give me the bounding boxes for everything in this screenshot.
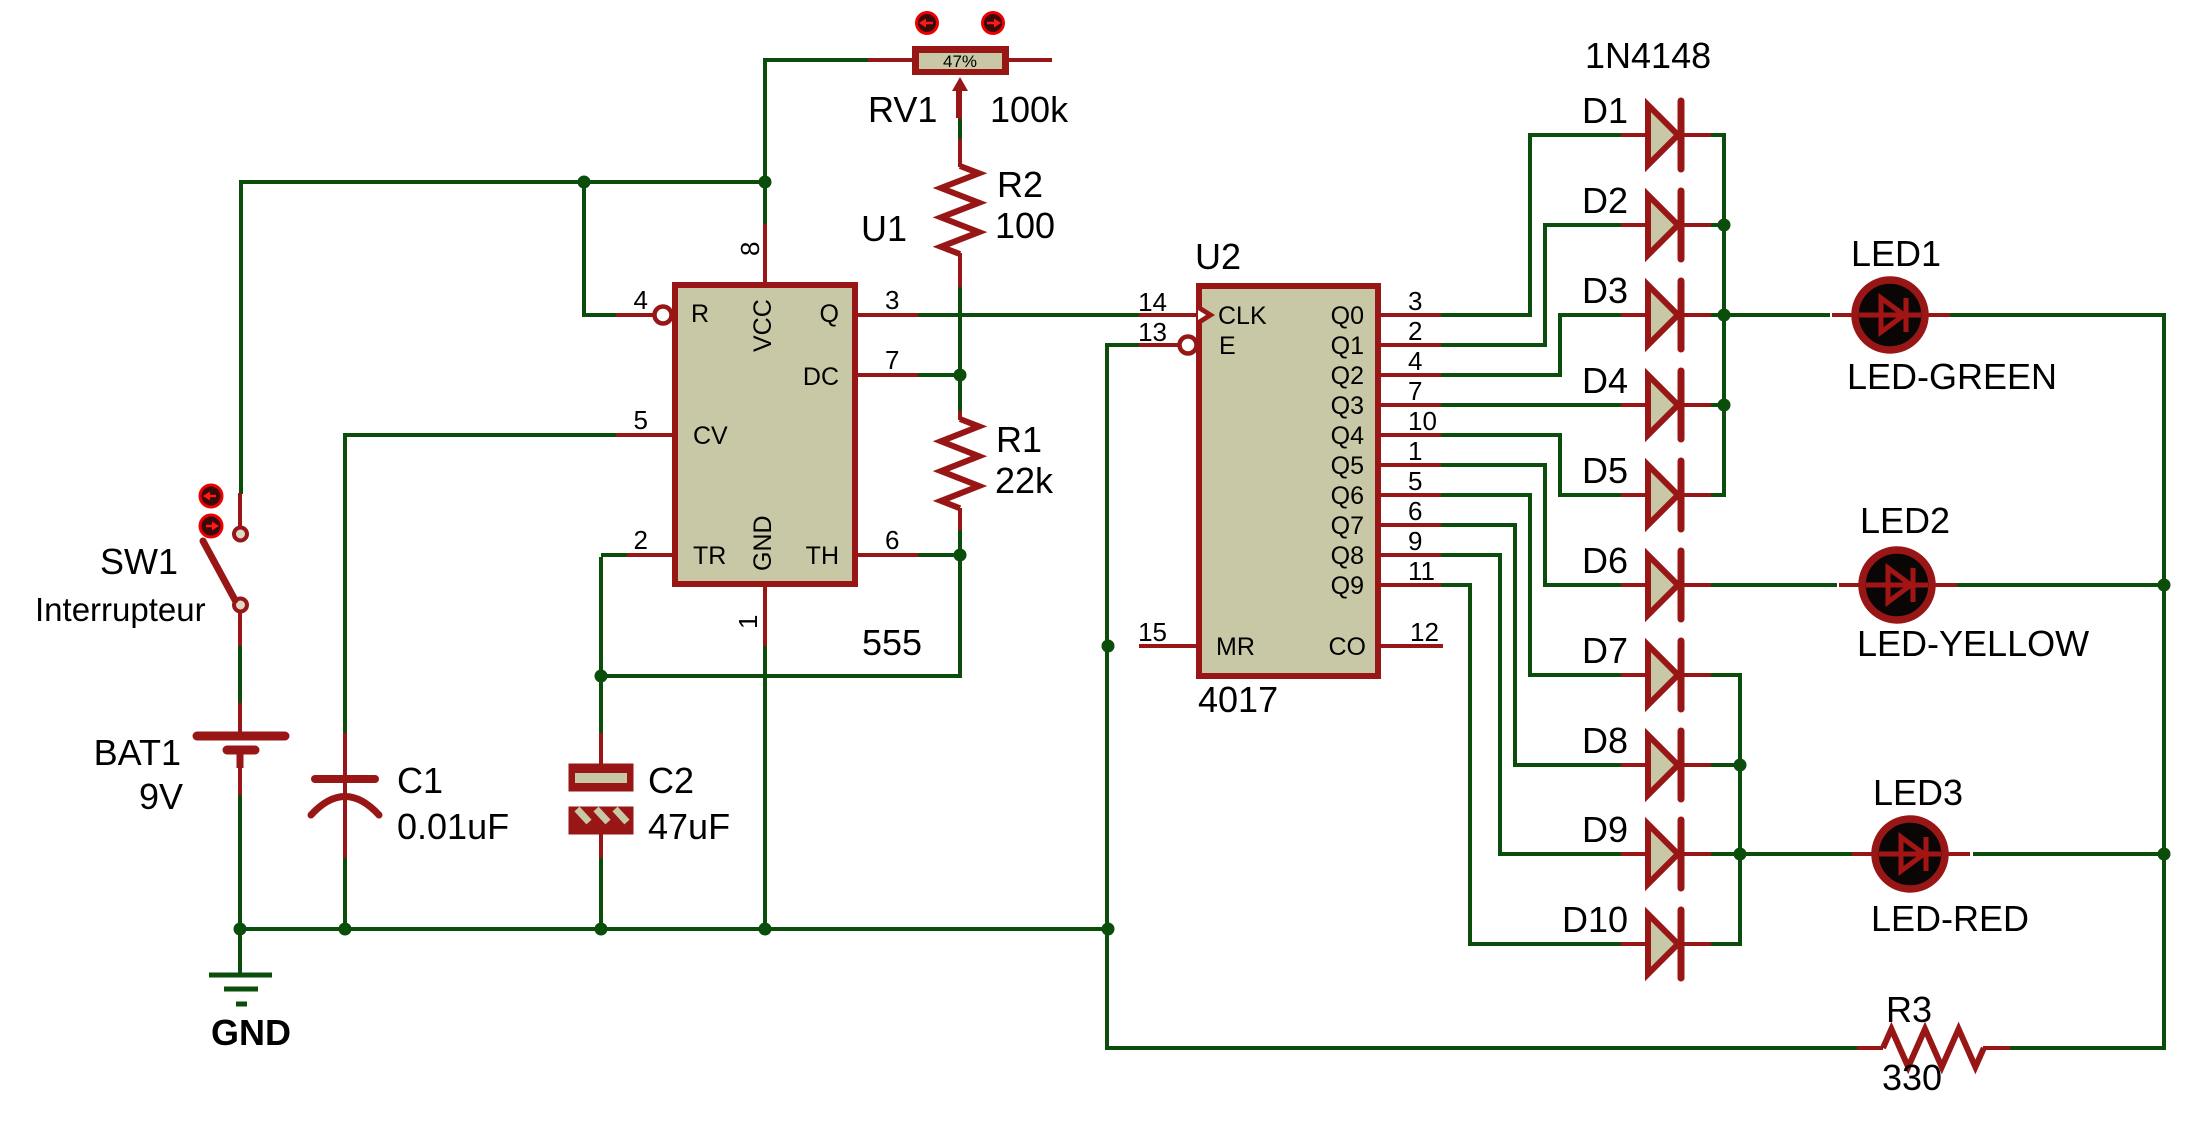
wire CV pin5 feed: [343, 433, 618, 437]
wire RV1 wiper to R2: [958, 117, 962, 141]
svg-text:SW1: SW1: [100, 541, 178, 582]
wire LED2 cathode to bus: [1955, 583, 2166, 587]
wire D5 out: [1711, 493, 1726, 497]
pin U1.8 VCC: [763, 224, 767, 287]
svg-text:TH: TH: [806, 542, 839, 570]
svg-text:7: 7: [885, 345, 899, 375]
svg-text:R1: R1: [996, 419, 1042, 460]
node A rail-reset: [578, 176, 591, 189]
wire switch to battery: [238, 644, 242, 705]
pin U2 Q9: [1381, 583, 1441, 587]
wire battery to ground rail: [238, 793, 242, 931]
svg-text:VCC: VCC: [749, 299, 777, 352]
svg-text:4: 4: [1408, 346, 1422, 376]
wire reset pin4 feed: [584, 182, 618, 315]
svg-text:D3: D3: [1582, 270, 1628, 311]
pin R1 bottom: [958, 508, 962, 530]
svg-text:D9: D9: [1582, 809, 1628, 850]
svg-text:Q6: Q6: [1331, 482, 1364, 510]
svg-text:15: 15: [1138, 617, 1167, 647]
pin U2 Q3: [1381, 403, 1441, 407]
svg-text:D7: D7: [1582, 630, 1628, 671]
node LED2 bus: [2158, 579, 2171, 592]
diode D3 1N4148: [1621, 281, 1711, 349]
pin U1.2 TR: [627, 553, 674, 557]
wire Q1 to D2: [1439, 225, 1621, 345]
LED LED3: [1852, 819, 1970, 889]
svg-text:Q7: Q7: [1331, 512, 1364, 540]
svg-text:MR: MR: [1216, 633, 1255, 661]
pin U1.4 R: [616, 313, 653, 317]
wire LED3 cathode to bus: [1973, 852, 2166, 856]
svg-text:D1: D1: [1582, 90, 1628, 131]
svg-text:5: 5: [1408, 466, 1422, 496]
diode D2 1N4148: [1621, 191, 1711, 259]
wire R1 bottom to TH junction: [958, 528, 962, 556]
svg-text:Q3: Q3: [1331, 392, 1364, 420]
node LED3 bus: [2158, 848, 2171, 861]
pin U1.3 Q: [856, 313, 918, 317]
svg-text:Q: Q: [820, 300, 839, 328]
wire D6 out to LED2: [1711, 583, 1837, 587]
svg-text:LED-GREEN: LED-GREEN: [1847, 356, 2057, 397]
pin U2.14 CLK: [1139, 313, 1197, 317]
pin U1.7 DC: [856, 373, 918, 377]
wire E and MR to R3 (ground return): [1107, 345, 1858, 1048]
pin U2 Q7: [1381, 523, 1441, 527]
svg-text:11: 11: [1408, 556, 1435, 586]
wire DC junction to R1 top: [958, 381, 962, 413]
pin R2 bottom: [958, 253, 962, 287]
pin U2 Q2: [1381, 373, 1441, 377]
wire C2 bottom: [599, 857, 603, 929]
capacitor C1: [315, 775, 375, 783]
svg-text:GND: GND: [211, 1012, 291, 1053]
svg-text:LED-RED: LED-RED: [1871, 898, 2029, 939]
pin U1.6 TH: [856, 553, 918, 557]
resistor R1: [941, 419, 979, 508]
svg-text:C1: C1: [397, 760, 443, 801]
wire Q6 to D7: [1439, 495, 1621, 675]
svg-text:Q8: Q8: [1331, 542, 1364, 570]
node gnd rail end: [1102, 923, 1115, 936]
node DC pin7: [954, 369, 967, 382]
svg-text:D8: D8: [1582, 720, 1628, 761]
pin U2 Q8: [1381, 553, 1441, 557]
switch SW1: [234, 528, 247, 541]
wire TR horizontal: [601, 553, 629, 557]
wire C1 top: [343, 433, 347, 735]
wire 555 VCC pin8 feed: [763, 182, 767, 226]
node gnd C2: [595, 923, 608, 936]
pin BAT1 - tab: [237, 752, 244, 768]
node TH pin6: [954, 549, 967, 562]
svg-text:4017: 4017: [1198, 679, 1278, 720]
svg-text:4: 4: [634, 285, 648, 315]
svg-text:BAT1: BAT1: [94, 732, 181, 773]
svg-text:DC: DC: [803, 363, 839, 391]
svg-text:LED1: LED1: [1851, 233, 1941, 274]
wire D8 out: [1711, 763, 1740, 767]
svg-text:100: 100: [995, 205, 1055, 246]
pin U2.15 MR: [1139, 644, 1197, 648]
wire Q output to CLK: [916, 313, 1140, 317]
svg-text:CV: CV: [693, 422, 728, 450]
svg-text:Q9: Q9: [1331, 572, 1364, 600]
node D2 bus: [1718, 219, 1731, 232]
svg-text:D2: D2: [1582, 180, 1628, 221]
node gnd 555: [759, 923, 772, 936]
U1 reset bubble pin4: [655, 307, 672, 324]
svg-text:Q1: Q1: [1331, 332, 1364, 360]
wire D10 out: [1711, 942, 1742, 946]
op-amp U1 555 timer body: [675, 285, 855, 584]
wire to ground symbol: [238, 929, 242, 973]
svg-text:Interrupteur: Interrupteur: [35, 591, 206, 628]
svg-text:GND: GND: [749, 515, 777, 571]
wire Q4 to D5: [1439, 435, 1621, 495]
svg-text:R: R: [691, 300, 709, 328]
svg-text:LED2: LED2: [1860, 500, 1950, 541]
pin U2.12 CO: [1381, 644, 1443, 648]
LED LED2: [1839, 550, 1957, 620]
potentiometer RV1 adjust buttons: [917, 13, 938, 34]
wire C1 bottom: [343, 858, 347, 929]
svg-text:6: 6: [885, 525, 899, 555]
wire D7-D10 bus: [1711, 675, 1740, 946]
svg-text:Q2: Q2: [1331, 362, 1364, 390]
wire R2 bottom to DC pin7: [958, 285, 962, 376]
U2 clock arrow pin14: [1196, 303, 1215, 327]
pin U2 Q0: [1381, 313, 1441, 317]
svg-text:2: 2: [1408, 316, 1422, 346]
diode D4 1N4148: [1621, 371, 1711, 439]
battery BAT1: [197, 736, 285, 750]
svg-text:100k: 100k: [990, 89, 1069, 130]
pin R1 top: [958, 411, 962, 420]
pin BAT1 -: [238, 752, 242, 795]
diode D10 1N4148: [1621, 910, 1711, 978]
svg-text:3: 3: [885, 285, 899, 315]
node MR: [1102, 640, 1115, 653]
wire C2 top: [599, 676, 603, 735]
pin RV1 wiper: [958, 88, 962, 119]
svg-text:CLK: CLK: [1218, 302, 1267, 330]
pin R2 top: [958, 139, 962, 167]
svg-text:9: 9: [1408, 526, 1422, 556]
pin U2 Q6: [1381, 493, 1441, 497]
wire R3 to LED cathode bus: [1950, 315, 2164, 1048]
pin U2 Q1: [1381, 343, 1441, 347]
svg-text:1: 1: [733, 615, 763, 629]
pin C2 top: [599, 733, 603, 764]
svg-text:E: E: [1219, 332, 1236, 360]
pin R3 right: [1983, 1046, 2010, 1050]
node D9 bus: [1734, 848, 1747, 861]
wire D2 out: [1711, 223, 1724, 227]
wire Q8 to D9: [1439, 555, 1621, 854]
wire TH to C2/TR node: [599, 555, 960, 676]
switch SW1 actuator buttons: [200, 485, 222, 507]
node D8 bus: [1734, 759, 1747, 772]
svg-text:LED3: LED3: [1873, 772, 1963, 813]
svg-text:47%: 47%: [943, 52, 977, 71]
svg-text:R3: R3: [1886, 989, 1932, 1030]
svg-text:7: 7: [1408, 376, 1422, 406]
svg-text:Q4: Q4: [1331, 422, 1364, 450]
svg-text:1: 1: [1408, 436, 1422, 466]
node gnd battery: [234, 923, 247, 936]
svg-text:D5: D5: [1582, 450, 1628, 491]
wire D9 out: [1711, 852, 1740, 856]
wire to LED3: [1740, 852, 1852, 856]
pin U2.13 E: [1139, 343, 1178, 347]
wire 555 GND pin1 down: [763, 644, 767, 929]
svg-text:D10: D10: [1562, 899, 1628, 940]
pin SW1 bottom: [238, 611, 242, 646]
svg-text:555: 555: [862, 622, 922, 663]
wire Q0 to D1: [1439, 135, 1621, 315]
wire D4 out: [1711, 403, 1724, 407]
diode D1 1N4148: [1621, 101, 1711, 169]
wire RV1 left lead feed: [765, 60, 870, 184]
svg-text:8: 8: [735, 242, 765, 256]
pin U2 Q5: [1381, 463, 1441, 467]
pin C2 bottom: [599, 834, 603, 858]
wire Q9 to D10: [1439, 585, 1621, 944]
pin R3 left: [1857, 1046, 1883, 1050]
pin SW1 top: [238, 493, 242, 528]
node D3 bus: [1718, 309, 1731, 322]
pin RV1 terminal 2: [1007, 58, 1052, 62]
svg-text:Q0: Q0: [1331, 302, 1364, 330]
U2 enable bubble pin13: [1180, 337, 1197, 354]
pin C1 top: [343, 733, 347, 777]
diode D6 1N4148: [1621, 551, 1711, 619]
svg-text:330: 330: [1882, 1057, 1942, 1098]
node B rail-vcc: [759, 176, 772, 189]
wire VCC top rail: [241, 182, 767, 494]
wire TH junction stub: [914, 553, 960, 557]
counter U2 4017 body: [1199, 286, 1378, 676]
pin U1.5 CV: [616, 433, 674, 437]
svg-text:RV1: RV1: [868, 89, 937, 130]
svg-text:47uF: 47uF: [648, 806, 730, 847]
svg-text:U1: U1: [861, 208, 907, 249]
capacitor C2: [569, 764, 633, 834]
diode D7 1N4148: [1621, 641, 1711, 709]
svg-text:13: 13: [1138, 317, 1167, 347]
diode D5 1N4148: [1621, 461, 1711, 529]
pin U1.1 GND: [763, 585, 767, 646]
svg-text:9V: 9V: [139, 776, 183, 817]
wire D3 out: [1711, 313, 1724, 317]
wire Q5 to D6: [1439, 465, 1621, 585]
svg-text:1N4148: 1N4148: [1585, 35, 1711, 76]
svg-text:C2: C2: [648, 760, 694, 801]
svg-text:D4: D4: [1582, 360, 1628, 401]
svg-text:22k: 22k: [995, 460, 1054, 501]
svg-text:CO: CO: [1329, 633, 1367, 661]
node TR-C2: [595, 670, 608, 683]
svg-text:0.01uF: 0.01uF: [397, 806, 509, 847]
pin BAT1 +: [238, 703, 242, 732]
wire D1-D5 anode bus: [1711, 135, 1724, 497]
diode D8 1N4148: [1621, 731, 1711, 799]
svg-text:5: 5: [634, 405, 648, 435]
svg-text:2: 2: [634, 525, 648, 555]
wire Q3 to D4: [1439, 403, 1621, 407]
node gnd C1: [339, 923, 352, 936]
resistor R2: [941, 166, 979, 254]
svg-text:D6: D6: [1582, 540, 1628, 581]
svg-text:U2: U2: [1195, 236, 1241, 277]
svg-text:3: 3: [1408, 286, 1422, 316]
potentiometer RV1: [912, 46, 1009, 75]
wire to LED1: [1724, 313, 1830, 317]
resistor R3: [1883, 1029, 1984, 1067]
ground: [209, 975, 272, 1004]
pin U2 Q4: [1381, 433, 1441, 437]
wire TR vertical: [599, 557, 603, 678]
node D4 bus: [1718, 399, 1731, 412]
diode D9 1N4148: [1621, 820, 1711, 888]
svg-text:14: 14: [1138, 287, 1167, 317]
svg-text:12: 12: [1410, 617, 1439, 647]
wire DC pin7 to junction: [916, 373, 962, 377]
LED LED1: [1832, 280, 1950, 350]
wire Q7 to D8: [1439, 525, 1621, 765]
wire Q2 to D3: [1439, 315, 1621, 375]
pin RV1 terminal 1: [868, 58, 914, 62]
svg-text:TR: TR: [693, 542, 726, 570]
svg-text:10: 10: [1408, 406, 1437, 436]
pin C1 bottom: [343, 783, 347, 858]
svg-text:Q5: Q5: [1331, 452, 1364, 480]
svg-text:LED-YELLOW: LED-YELLOW: [1857, 623, 2089, 664]
svg-text:6: 6: [1408, 496, 1422, 526]
wire ground rail: [238, 927, 1108, 931]
svg-text:R2: R2: [997, 164, 1043, 205]
